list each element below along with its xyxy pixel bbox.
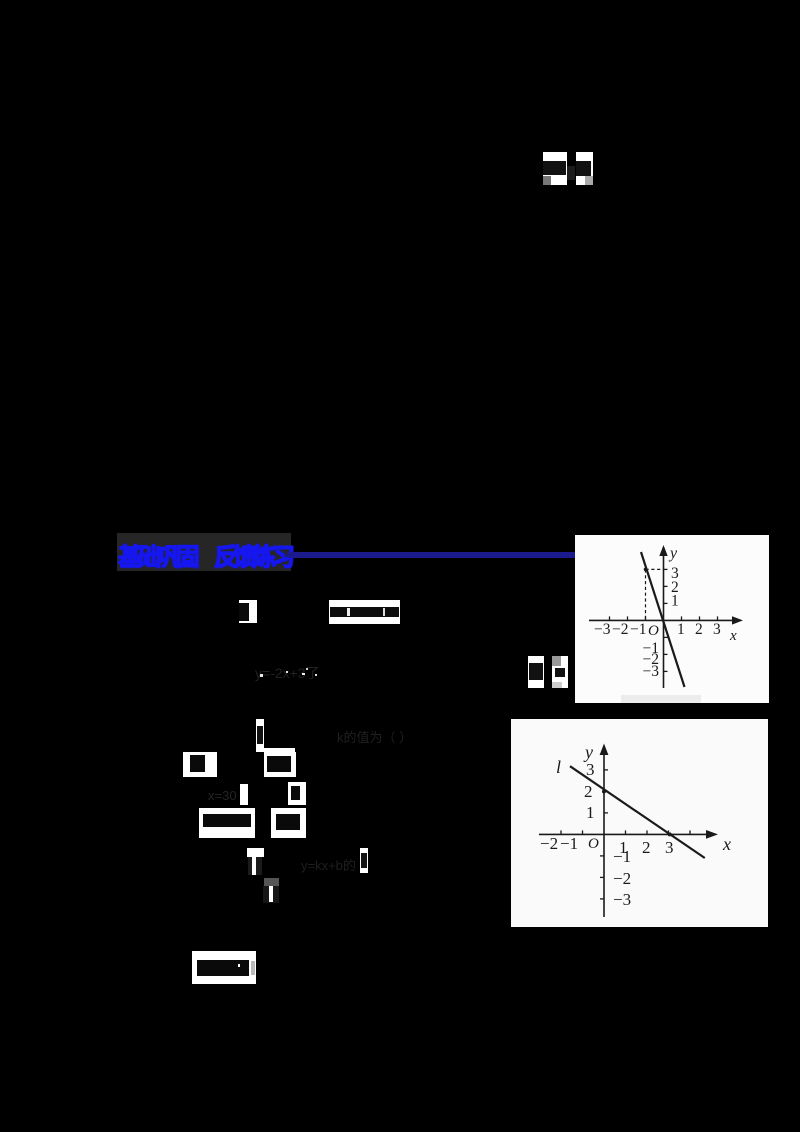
ticks [561, 770, 690, 899]
labels [540, 742, 731, 909]
svg-text:3: 3 [665, 838, 674, 857]
formula patch after item 1 [329, 600, 400, 624]
option B patch [264, 752, 296, 777]
svg-text:−3: −3 [594, 621, 611, 638]
option A patch [183, 752, 217, 777]
labels [594, 545, 737, 680]
svg-text:x: x [722, 834, 731, 854]
faint formula line (item 1, second row) [255, 663, 321, 681]
option D patch [288, 782, 306, 805]
header gray band [117, 533, 291, 571]
line l [570, 766, 705, 858]
y axis [603, 750, 605, 917]
svg-text:−2: −2 [612, 621, 629, 638]
svg-text:1: 1 [677, 621, 685, 638]
x axis [539, 833, 712, 835]
header navy underline [287, 552, 575, 558]
svg-text:3: 3 [713, 621, 721, 638]
graph 1 [575, 535, 769, 703]
fraction image patch 1 (top) [543, 152, 567, 185]
header blue text group 1 [118, 537, 200, 565]
header blue text group 2 [214, 537, 296, 565]
svg-text:2: 2 [642, 838, 651, 857]
svg-text:−2: −2 [613, 869, 631, 888]
steep line y=-3x [641, 552, 685, 687]
svg-text:2: 2 [584, 782, 593, 801]
dark glyphs between top patches [567, 166, 575, 180]
small white strip end of line 3 [360, 848, 368, 873]
y ticks [664, 568, 668, 570]
svg-text:−3: −3 [643, 663, 660, 680]
svg-text:y: y [668, 545, 678, 562]
svg-text:−1: −1 [560, 834, 578, 853]
graph 2 [511, 719, 768, 927]
svg-text:O: O [588, 836, 599, 852]
y axis [663, 551, 665, 688]
big formula patch row [199, 808, 255, 838]
svg-text:1: 1 [586, 803, 595, 822]
svg-text:2: 2 [695, 621, 703, 638]
answer box [192, 951, 256, 984]
x axis [589, 619, 738, 621]
item 1 white patch [239, 600, 257, 623]
dashed helper lines [646, 569, 664, 620]
faint formula after item 3 [301, 855, 361, 869]
svg-text:y: y [583, 742, 593, 762]
svg-text:−2: −2 [540, 834, 558, 853]
svg-text:x: x [729, 628, 737, 644]
item 2 white strip [256, 719, 264, 752]
option C area: faint text + small strip [208, 788, 244, 802]
svg-text:1: 1 [671, 593, 679, 610]
svg-text:−1: −1 [630, 621, 647, 638]
small fraction patches left of graph 1 [528, 656, 544, 688]
fraction image patch 2 (top) [576, 152, 593, 185]
item 4 [264, 878, 279, 886]
x ticks [610, 569, 718, 671]
faint formula after item 2 [337, 727, 400, 743]
svg-text:−3: −3 [613, 890, 631, 909]
svg-text:l: l [556, 757, 561, 777]
svg-text:O: O [648, 623, 659, 639]
svg-text:−1: −1 [613, 847, 631, 866]
item 3 [247, 848, 264, 857]
svg-text:3: 3 [586, 760, 595, 779]
